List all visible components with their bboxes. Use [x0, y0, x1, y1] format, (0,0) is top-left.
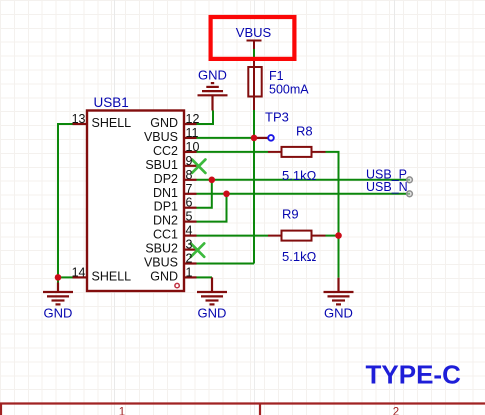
svg-text:GND: GND: [150, 116, 178, 130]
svg-text:11: 11: [186, 126, 199, 140]
svg-text:8: 8: [186, 168, 193, 182]
svg-text:TYPE-C: TYPE-C: [366, 360, 462, 390]
svg-text:5.1kΩ: 5.1kΩ: [282, 168, 317, 183]
svg-text:VBUS: VBUS: [236, 25, 272, 40]
svg-text:DP2: DP2: [154, 172, 178, 186]
svg-text:9: 9: [186, 154, 193, 168]
svg-text:SBU2: SBU2: [145, 242, 178, 256]
svg-text:DN1: DN1: [153, 186, 178, 200]
svg-text:TP3: TP3: [265, 110, 289, 125]
svg-text:SHELL: SHELL: [92, 116, 132, 130]
svg-text:2: 2: [186, 252, 193, 266]
svg-text:1: 1: [186, 265, 193, 279]
svg-text:GND: GND: [44, 306, 73, 321]
svg-text:GND: GND: [324, 306, 353, 321]
svg-text:5: 5: [186, 210, 193, 224]
svg-text:CC1: CC1: [153, 228, 178, 242]
svg-text:SHELL: SHELL: [92, 269, 132, 283]
svg-text:GND: GND: [198, 306, 227, 321]
svg-text:GND: GND: [198, 68, 227, 83]
svg-text:CC2: CC2: [153, 144, 178, 158]
svg-text:6: 6: [186, 196, 193, 210]
svg-text:14: 14: [72, 265, 86, 279]
svg-text:R8: R8: [296, 123, 313, 138]
svg-text:2: 2: [393, 406, 399, 415]
svg-text:F1: F1: [269, 69, 284, 83]
svg-text:DP1: DP1: [154, 200, 178, 214]
svg-text:USB1: USB1: [94, 95, 129, 110]
svg-text:DN2: DN2: [153, 214, 178, 228]
svg-text:VBUS: VBUS: [144, 256, 178, 270]
svg-text:13: 13: [72, 112, 86, 126]
svg-text:1: 1: [119, 406, 125, 415]
svg-text:SBU1: SBU1: [145, 158, 178, 172]
svg-text:R9: R9: [282, 207, 299, 222]
svg-text:12: 12: [186, 112, 200, 126]
svg-text:4: 4: [186, 224, 193, 238]
svg-text:3: 3: [186, 238, 193, 252]
svg-text:VBUS: VBUS: [144, 130, 178, 144]
svg-text:USB_N: USB_N: [366, 180, 408, 194]
svg-text:5.1kΩ: 5.1kΩ: [282, 249, 317, 264]
svg-text:10: 10: [186, 140, 200, 154]
svg-text:GND: GND: [150, 269, 178, 283]
svg-text:7: 7: [186, 182, 193, 196]
svg-text:500mA: 500mA: [269, 82, 309, 96]
